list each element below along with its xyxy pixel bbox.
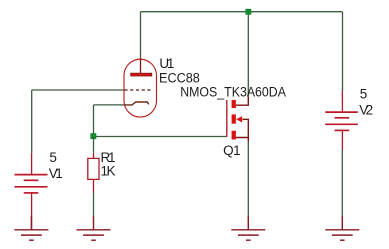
battery V1 plate short 1 bbox=[24, 179, 39, 181]
transistor Q1 channel bar middle bbox=[232, 114, 236, 123]
wire top bus bbox=[141, 11, 343, 13]
battery V2 plate short 2 bbox=[335, 129, 350, 131]
battery V1 bottom lead bbox=[31, 193, 33, 230]
svg-text:NMOS_TK3A60DA: NMOS_TK3A60DA bbox=[180, 84, 286, 99]
tube U1 envelope bbox=[124, 59, 157, 117]
wire V1 drop bbox=[31, 90, 33, 153]
wire grid horizontal bbox=[32, 89, 125, 91]
tube U1 grid dashed bbox=[124, 89, 150, 91]
wire drain drop bbox=[247, 12, 249, 97]
wire R1 bottom bbox=[93, 192, 95, 216]
transistor Q1 channel bar bottom bbox=[232, 131, 236, 140]
transistor Q1 body line bbox=[243, 119, 249, 137]
battery V2 top lead bbox=[341, 91, 343, 113]
node junction cathode bbox=[90, 133, 96, 139]
wire cathode drop bbox=[93, 105, 95, 137]
wire cathode horizontal bbox=[94, 104, 124, 106]
transistor Q1 body arrow bbox=[236, 116, 242, 122]
transistor Q1 channel bar top bbox=[232, 100, 236, 108]
battery V2 bottom lead bbox=[341, 130, 343, 150]
wire R1 top bbox=[93, 137, 95, 153]
node junction top bbox=[245, 9, 251, 15]
svg-text:Q1: Q1 bbox=[223, 143, 241, 158]
wire source to ground bbox=[247, 142, 249, 217]
ground R1 bbox=[77, 216, 111, 240]
svg-text:V2: V2 bbox=[359, 103, 373, 118]
battery V2 plate long 2 bbox=[325, 123, 358, 125]
battery V1 plate short 2 bbox=[24, 192, 39, 194]
resistor R1 body bbox=[93, 153, 95, 159]
wire anode drop bbox=[140, 12, 142, 58]
battery V1 plate long 1 bbox=[15, 174, 48, 176]
svg-text:5: 5 bbox=[49, 150, 57, 165]
svg-text:U1: U1 bbox=[159, 56, 174, 71]
svg-text:5: 5 bbox=[360, 87, 368, 102]
transistor Q1 source stub bbox=[236, 138, 248, 142]
transistor Q1 gate bbox=[226, 100, 228, 137]
battery V2 plate short 1 bbox=[335, 117, 350, 119]
transistor Q1 drain stub bbox=[236, 97, 248, 105]
tube U1 anode plate bbox=[131, 73, 152, 76]
wire V2 to ground bbox=[341, 150, 343, 216]
ground V2 bbox=[325, 216, 359, 240]
battery V2 plate long 1 bbox=[325, 111, 358, 113]
ground Q1 source bbox=[231, 216, 265, 240]
battery V1 plate long 2 bbox=[15, 186, 48, 188]
wire gate horizontal bbox=[94, 136, 227, 138]
wire V2 drop bbox=[342, 12, 344, 91]
svg-text:1K: 1K bbox=[101, 163, 116, 178]
svg-text:V1: V1 bbox=[49, 166, 63, 181]
svg-text:ECC88: ECC88 bbox=[159, 71, 200, 86]
battery V1 top lead bbox=[31, 153, 33, 175]
tube U1 cathode bbox=[124, 102, 149, 105]
ground V1 bbox=[14, 216, 48, 240]
tube U1 anode lead bbox=[140, 58, 142, 74]
